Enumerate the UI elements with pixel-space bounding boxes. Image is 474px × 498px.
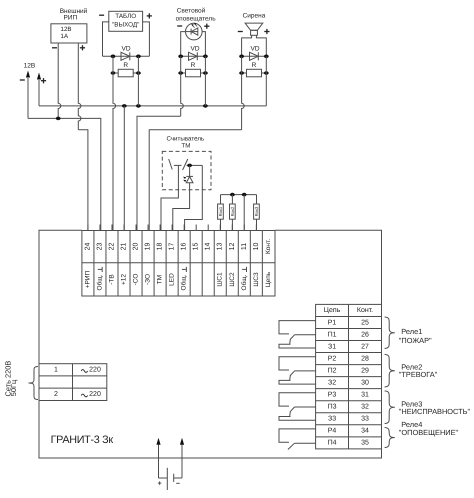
svg-text:R: R [252, 62, 257, 69]
power supply box U1 Внешний РИП [51, 24, 87, 43]
relay table column divider [348, 304, 350, 448]
svg-text:R: R [191, 62, 196, 69]
polarity plus [80, 47, 85, 49]
svg-text:"ВЫХОД": "ВЫХОД" [112, 22, 139, 29]
relay contact pole and armature [295, 334, 316, 336]
TM reader dashed box [162, 151, 211, 189]
relay contact NO line [279, 393, 316, 406]
wire minus bus [28, 118, 101, 230]
terminal strip row divider [82, 262, 275, 264]
terminal strip divider [153, 231, 155, 297]
svg-text:Р4: Р4 [328, 428, 337, 435]
svg-text:220: 220 [89, 391, 101, 398]
relay table row line [316, 340, 382, 342]
wire TM left contact to terminal 18 [161, 165, 178, 230]
tablo minus [99, 14, 104, 16]
svg-text:22: 22 [108, 243, 115, 251]
terminal pin 21 [123, 225, 125, 231]
wire tablo plus to bus [137, 56, 139, 106]
ground glyph [246, 267, 248, 272]
svg-text:Считыватель: Считыватель [166, 135, 204, 142]
wire sirena left lead [242, 35, 252, 56]
tablo plus [147, 15, 152, 17]
svg-text:ТМ: ТМ [157, 275, 164, 284]
relay table row line [316, 327, 382, 329]
relay contact NO line [279, 357, 316, 370]
wire tablo left lead [103, 22, 109, 56]
svg-text:П3: П3 [328, 404, 337, 411]
svg-text:оповещатель: оповещатель [176, 15, 217, 22]
svg-text:З2: З2 [328, 379, 336, 386]
svg-text:Конт.: Конт. [265, 239, 272, 254]
relay contact pole and armature [295, 406, 316, 408]
svg-text:П2: П2 [328, 367, 337, 374]
svg-text:"ОПОВЕЩЕНИЕ": "ОПОВЕЩЕНИЕ" [399, 428, 459, 437]
svg-text:"ПОЖАР": "ПОЖАР" [399, 336, 432, 345]
lamp LED annunciator [186, 23, 203, 40]
terminal strip divider [201, 231, 203, 297]
svg-text:Р1: Р1 [328, 319, 337, 326]
wire TM node [187, 164, 203, 166]
terminal strip divider [177, 231, 179, 297]
terminal strip divider [213, 231, 215, 297]
svg-text:Сирена: Сирена [243, 13, 266, 20]
wire sirena diode row [242, 55, 267, 57]
battery arrow plus lead [156, 438, 160, 445]
terminal pin 15 [195, 225, 197, 231]
svg-text:ТМ: ТМ [181, 143, 190, 150]
wire TM node to terminal 16 [185, 165, 203, 230]
terminal strip outline [82, 231, 275, 297]
wire svetovoy diode row [181, 55, 206, 57]
wire RIP minus [58, 43, 61, 118]
brace relay 2 [385, 354, 395, 387]
svg-text:12В: 12В [24, 62, 36, 69]
svg-text:26: 26 [361, 331, 369, 338]
brace relay 3 [385, 391, 395, 424]
siren speaker symbol [245, 23, 263, 30]
relay table row line [316, 436, 382, 438]
terminal strip divider [117, 231, 119, 297]
svg-text:LED: LED [169, 273, 176, 286]
TM contact right [183, 159, 188, 170]
enclosure GRANIT-3 box [39, 230, 382, 458]
svg-text:24: 24 [84, 243, 91, 251]
relay contact NO line [279, 321, 316, 334]
wire svetovoy plus to bus [204, 56, 206, 106]
junction RIP minus [56, 117, 61, 121]
relay contact pole and armature [295, 370, 316, 372]
terminal pin 24 [87, 225, 89, 231]
terminal pin 17 [171, 225, 173, 231]
svg-text:12В: 12В [61, 26, 72, 33]
relay table row line [316, 424, 382, 426]
svg-text:П1: П1 [328, 331, 337, 338]
svg-text:33: 33 [361, 416, 369, 423]
relay table row line [316, 412, 382, 414]
relay contact NC line [279, 344, 316, 348]
relay contact NC line [279, 380, 316, 384]
svg-text:32: 32 [361, 404, 369, 411]
wire sirena minus to terminal 19 [242, 56, 245, 129]
terminal pin 12 [231, 225, 233, 231]
svg-text:-ТВ: -ТВ [108, 274, 115, 284]
wire RIP plus [78, 43, 81, 130]
relay contact NC line [279, 417, 316, 421]
svg-text:VD: VD [250, 45, 259, 52]
wire sirena plus to bus [265, 56, 267, 106]
svetovoy plus [204, 25, 209, 27]
terminal pin 22 [111, 225, 113, 231]
wire tablo diode row [103, 55, 150, 57]
terminal strip divider [165, 231, 167, 297]
relay table row line [316, 400, 382, 402]
wire sirena right lead [256, 35, 266, 56]
wire RIP plus to terminal 24 [78, 130, 88, 231]
terminal strip divider [105, 231, 107, 297]
svetovoy minus [177, 25, 182, 27]
svg-text:16: 16 [181, 243, 188, 251]
svg-text:19: 19 [145, 243, 152, 251]
relay table row line [316, 376, 382, 378]
terminal pin 10 [255, 225, 257, 231]
LED inside TM reader [189, 165, 191, 176]
ground glyph [185, 267, 187, 272]
svg-text:VD: VD [121, 45, 130, 52]
svg-text:15: 15 [193, 243, 200, 251]
relay contact pole and armature [295, 442, 316, 444]
TM contact left [169, 159, 173, 170]
relay contact NO line [279, 429, 316, 442]
brace relay 1 [385, 317, 395, 349]
svg-text:VD: VD [190, 45, 199, 52]
terminal strip divider [129, 231, 131, 297]
svg-text:31: 31 [361, 392, 369, 399]
svg-text:Цепь: Цепь [324, 307, 341, 314]
sirena minus [238, 31, 243, 33]
svg-text:Р2: Р2 [328, 355, 337, 362]
svg-text:28: 28 [361, 355, 369, 362]
emission arrows [192, 25, 195, 28]
svg-text:17: 17 [169, 243, 176, 251]
svg-text:1: 1 [54, 366, 58, 373]
svg-text:Общ.: Общ. [96, 274, 103, 290]
wire tablo minus to terminal 22 [113, 56, 116, 230]
wire tablo right lead [143, 22, 150, 56]
svg-text:"ТРЕВОГА": "ТРЕВОГА" [399, 370, 438, 379]
sirena plus [264, 31, 269, 33]
terminal pin 16 [183, 225, 185, 231]
terminal pin 14 [207, 225, 209, 231]
resistor Rok2 [231, 195, 233, 204]
svg-text:14: 14 [205, 243, 212, 251]
terminal pin 18 [159, 225, 161, 231]
terminal strip divider [189, 231, 191, 297]
svg-text:З3: З3 [328, 416, 336, 423]
svg-text:П4: П4 [328, 440, 337, 447]
ground glyph [101, 267, 103, 272]
terminal pin 11 [243, 225, 245, 231]
svg-text:-СО: -СО [133, 274, 140, 286]
terminal pin 19 [147, 225, 149, 231]
svg-text:+12: +12 [121, 274, 128, 285]
battery short plate [173, 474, 175, 482]
svg-text:Конт.: Конт. [357, 307, 373, 314]
svg-text:Общ.: Общ. [241, 274, 248, 290]
svg-text:Цепь: Цепь [265, 271, 272, 287]
battery minus sign [176, 482, 180, 484]
terminal strip divider [261, 231, 263, 297]
svg-text:ШС1: ШС1 [217, 272, 224, 287]
mains table [39, 364, 107, 401]
svg-text:Rок1: Rок1 [218, 206, 223, 216]
wire svetovoy left lead [181, 32, 186, 57]
svg-text:18: 18 [157, 243, 164, 251]
wire plus bus [39, 105, 266, 107]
terminal pin 20 [135, 225, 137, 231]
junction svetovoy plus [203, 104, 208, 108]
svg-text:34: 34 [361, 428, 369, 435]
svg-text:29: 29 [361, 367, 369, 374]
polarity minus [52, 47, 57, 49]
svg-text:23: 23 [96, 243, 103, 251]
svg-text:ТАБЛО: ТАБЛО [115, 13, 136, 20]
relay table outline [316, 304, 382, 448]
wire svetovoy right lead [202, 32, 205, 57]
junction tablo plus [136, 104, 141, 108]
tablo box [109, 11, 143, 31]
relay table row line [316, 388, 382, 390]
svg-text:21: 21 [121, 243, 128, 251]
resistor Rok3 [256, 195, 258, 204]
terminal pin 13 [219, 225, 221, 231]
brace relay 4 [385, 428, 395, 448]
terminal strip divider [225, 231, 227, 297]
svg-text:13: 13 [217, 243, 224, 251]
svg-text:1А: 1А [61, 33, 69, 40]
terminal strip divider [93, 231, 95, 297]
battery long plate [166, 468, 168, 490]
terminal pin 23 [99, 225, 101, 231]
svg-text:20: 20 [133, 243, 140, 251]
svg-text:R: R [123, 62, 128, 69]
battery plus sign [158, 482, 161, 484]
svg-text:ГРАНИТ-3 Зк: ГРАНИТ-3 Зк [51, 434, 114, 446]
svg-text:+РИП: +РИП [84, 270, 91, 288]
arrow minus 12V [26, 71, 30, 78]
svg-text:2: 2 [54, 391, 58, 398]
svg-text:50Гц: 50Гц [9, 379, 18, 396]
svg-text:ШС3: ШС3 [253, 272, 260, 287]
terminal strip divider [249, 231, 251, 297]
svg-text:11: 11 [241, 243, 248, 250]
svg-text:РИП: РИП [63, 15, 77, 22]
relay table row line [316, 352, 382, 354]
svg-text:ШС2: ШС2 [229, 272, 236, 287]
svg-text:"НЕИСПРАВНОСТЬ": "НЕИСПРАВНОСТЬ" [399, 407, 471, 416]
svg-text:-ЗО: -ЗО [145, 274, 152, 285]
brace mains [29, 367, 39, 400]
svg-text:25: 25 [361, 319, 369, 326]
svg-text:Световой: Световой [177, 8, 206, 15]
svg-text:З1: З1 [328, 343, 336, 350]
svg-text:Rок2: Rок2 [230, 206, 235, 216]
terminal strip divider [141, 231, 143, 297]
arrow plus 12V [37, 73, 41, 80]
svg-text:30: 30 [361, 379, 369, 386]
svg-text:Общ.: Общ. [181, 274, 188, 290]
battery arrow minus lead [180, 438, 184, 445]
wire svetovoy minus to terminal 20 [181, 56, 184, 116]
junction +12 [122, 104, 127, 108]
svg-text:35: 35 [361, 440, 369, 447]
wire EOL resistor bus [221, 194, 257, 196]
wire +12 to terminal 21 [123, 106, 125, 231]
svg-text:27: 27 [361, 343, 369, 350]
svg-text:12: 12 [229, 243, 236, 251]
relay table row line [316, 364, 382, 366]
relay table row line [316, 315, 382, 317]
svg-text:Р3: Р3 [328, 392, 337, 399]
terminal strip divider [237, 231, 239, 297]
resistor Rok1 [220, 195, 222, 204]
svg-text:220: 220 [89, 366, 101, 373]
wire LED to terminal 17 [173, 183, 190, 231]
svg-text:10: 10 [253, 243, 260, 251]
wire Obsh to terminal 11 [243, 195, 245, 231]
svg-text:Реле1: Реле1 [401, 327, 422, 336]
svg-text:Rок3: Rок3 [254, 206, 259, 216]
